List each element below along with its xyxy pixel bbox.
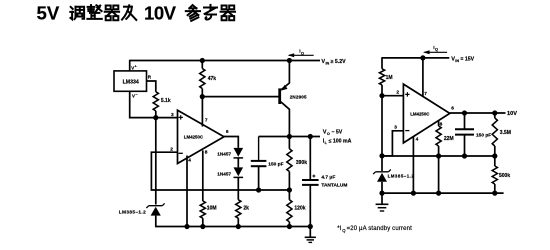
minus marker U1 [179,152,183,154]
label pin 4 [188,158,191,164]
resistor 10M [200,201,216,227]
hanzi 器 [221,6,235,21]
svg-text:LM334: LM334 [123,80,139,86]
wire: rail down to 1M [381,57,383,69]
junction dot C1/feedback [256,187,261,192]
resistor 1M [379,69,392,96]
wire: feedback mid rail (right) [382,155,495,157]
junction dot rail/ground [308,224,313,229]
op-amp U1 LM4250C [178,110,225,163]
svg-text:O: O [327,132,330,136]
footnote standby current [337,226,412,233]
minus marker U3 [405,130,409,132]
svg-text:=20 μA standby current: =20 μA standby current [347,226,412,232]
wire: pin 3 to reference node [382,131,403,156]
svg-text:Q: Q [301,51,304,55]
svg-text:47k: 47k [208,76,217,82]
svg-text:1N457: 1N457 [217,171,231,176]
svg-text:IN: IN [326,61,330,65]
junction dot rail/47k [200,58,205,63]
junction dot VO/C2 [308,134,313,139]
svg-text:10V: 10V [507,111,517,117]
svg-text:2: 2 [396,89,399,95]
junction dot reference node [379,153,384,158]
wire: pin 2 input [151,152,289,190]
transistor Q1 2N2905 [280,61,290,137]
hanzi 及 [122,5,136,20]
hanzi 整 [87,5,101,19]
svg-text:Q: Q [435,48,438,52]
svg-text:5.1k: 5.1k [161,98,171,104]
label 1N457 (D1) [217,152,231,157]
label 2N2905 [290,95,307,100]
wire: pin 7 supply [201,97,203,127]
svg-text:*I: *I [337,226,341,232]
junction dot feedback/divider [287,187,292,192]
svg-text:L: L [325,141,328,145]
svg-text:390k: 390k [296,160,307,166]
svg-text:8: 8 [205,150,208,156]
junction dot rail/zener (right) [379,191,384,196]
label VIN (left) [321,59,346,66]
label V- of LM334 [132,92,138,98]
svg-text:3.5M: 3.5M [500,130,511,136]
junction dot rail/pin4 (right) [411,191,416,196]
wire: pin 4 to ground (right) [412,137,414,193]
junction dot rail/pin7 (right) [420,55,425,60]
hanzi 调 [70,7,84,20]
wire: right circuit top rail [382,57,449,59]
plus mark C2 [312,175,315,178]
label pin 6 [226,129,229,135]
junction dot rail/500k (right) [492,191,497,196]
svg-text:150 pF: 150 pF [268,161,283,167]
svg-text:3: 3 [394,124,397,130]
label pin 7 [205,117,208,123]
svg-text:≥ 5.2V: ≥ 5.2V [331,59,346,65]
svg-text:6: 6 [451,106,454,112]
wire: left circuit V+ top rail [130,60,320,62]
svg-text:2N2905: 2N2905 [290,95,307,100]
wire: pin 4 to ground [186,156,188,227]
capacitor C1 150pF [251,137,267,191]
junction dot rail/22M (right) [436,191,441,196]
op-amp U3 LM4250C [403,84,449,143]
resistor 120k [287,190,306,227]
label 10V [507,111,517,117]
label pin 2 [170,147,173,153]
svg-text:= 15V: = 15V [460,57,474,63]
svg-text:6: 6 [226,129,229,135]
svg-text:LM4250C: LM4250C [184,135,204,140]
svg-text:3: 3 [171,112,174,118]
svg-text:150 pF: 150 pF [476,132,491,138]
svg-text:7: 7 [205,117,208,123]
current arrow IQ (right) [423,50,447,54]
wire: pin 6 output to diodes [224,137,238,148]
label pin 8 [205,150,208,156]
resistor 3.5M [492,113,511,156]
junction dot VO/collector/390k [287,134,292,139]
junction dot rail/10M [200,224,205,229]
svg-text:– 5V: – 5V [332,130,343,136]
svg-text:5V: 5V [37,3,60,24]
svg-text:LM385–1.2: LM385–1.2 [388,173,415,178]
junction dot rail/pin4 [184,224,189,229]
svg-text:≤ 100 mA: ≤ 100 mA [329,139,352,145]
svg-text:500k: 500k [499,173,510,179]
junction dot rail/120k [287,224,292,229]
wire: pin 8 to 22M [438,121,440,126]
junction dot 1M/pin2 [379,93,384,98]
junction dot out/3.5M [492,110,497,115]
svg-text:7: 7 [424,91,427,97]
svg-text:10M: 10M [207,205,217,211]
ground rail (left circuit) [155,226,310,228]
label VIN (right) [451,57,474,64]
wire: 1M node down to zener [381,96,383,171]
zener diode D4 LM385-1.2 [373,170,391,194]
resistor 500k [492,156,510,193]
label LM385-1.2 (right) [388,173,415,178]
svg-text:TANTALUM: TANTALUM [321,183,347,189]
junction dot rail/emitter [287,58,292,63]
label pin 8 (right) [440,122,443,128]
ground symbol (left) [305,227,316,243]
plus marker U3 [405,92,409,96]
label pin 7 (right) [424,91,427,97]
hanzi 器 [105,6,119,21]
plus marker U1 [179,115,183,119]
current arrow IQ (left) [288,53,314,57]
svg-text:4: 4 [188,158,191,164]
label IQ (left) [299,49,304,56]
svg-text:2k: 2k [243,205,249,211]
svg-text:−: − [135,92,137,96]
label pin 3 (right) [394,124,397,130]
wire: pin 2 input (right) [382,95,403,97]
wire: node A down to zener [155,118,157,205]
junction dot 3.5M/500k [492,153,497,158]
svg-text:IN: IN [455,59,459,63]
label pin 4 (right) [416,136,419,142]
label IQ (right) [433,45,438,52]
wire: output rail 10V [450,112,506,114]
svg-text:120k: 120k [294,205,305,211]
wire: pin 7 supply (right) [422,58,424,97]
svg-text:1M: 1M [386,75,393,81]
zener diode D3 LM385-1.2 [146,203,164,226]
wire: VO output rail [259,136,320,138]
svg-text:Q: Q [342,228,346,233]
label 1N457 (D2) [217,171,231,176]
hanzi 考 [204,5,217,20]
capacitor C3 150pF (right) [455,113,474,156]
ground rail (right circuit) [382,192,504,194]
wire: base of Q1 [202,96,278,98]
label pin 3 [171,112,174,118]
resistor 5.1k [153,92,171,111]
ground symbol (right) [376,193,389,211]
svg-text:LM4250C: LM4250C [410,112,430,117]
svg-text:+: + [135,64,137,68]
label V+ of LM334 [131,64,137,70]
wire: pin 8 to 10M [202,150,204,201]
label 150 pF (left) [268,161,283,167]
diode D1 1N457 [234,148,244,168]
junction dot rail/2k [236,224,241,229]
svg-text:10V: 10V [144,3,177,24]
LM334 U2 [114,71,147,91]
wire: LM334 V+ lead [129,60,131,71]
label IL [323,139,352,146]
label pin 6 (right) [451,106,454,112]
junction dot 22M/mid [436,153,441,158]
junction dot C3/mid [462,153,467,158]
diode D2 1N457 [234,167,244,199]
svg-text:4: 4 [416,136,419,142]
wire: LM334 R pin to 5.1k [147,81,156,92]
resistor 22M [436,126,454,193]
label 4.7 uF TANTALUM [321,175,347,189]
label LM385-1.2 [119,210,146,215]
label pin 2 (right) [396,89,399,95]
wire: LM334 V- down and right to op-amp pin 3 [130,91,178,117]
svg-text:LM385–1.2: LM385–1.2 [119,210,146,215]
node A junction dot [153,115,158,120]
resistor 390k [287,137,307,191]
label VO [323,130,343,137]
resistor 2k [236,200,249,227]
svg-text:1N457: 1N457 [217,152,231,157]
svg-text:4.7 μF: 4.7 μF [321,175,335,181]
wire: 5.1k to node A [155,111,157,118]
svg-text:22M: 22M [444,136,454,142]
junction dot 47k/base/pin7 [200,94,205,99]
resistor 47k [200,61,217,97]
label R pin of LM334 [148,75,152,80]
hanzi 参 [186,5,200,21]
junction dot out/C3 [462,110,467,115]
capacitor C2 4.7uF tantalum [302,137,319,227]
label 150 pF (right) [476,132,491,138]
svg-text:R: R [148,75,152,80]
